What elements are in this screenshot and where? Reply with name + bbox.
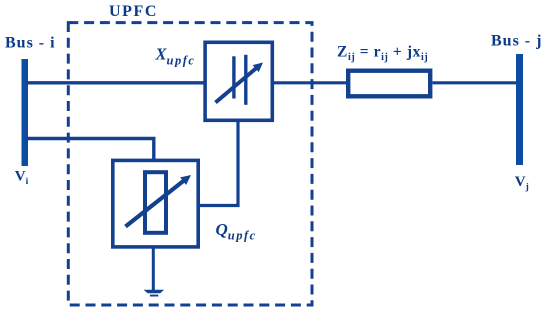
series converter box U1 (variable reactance Xupfc) bbox=[205, 42, 272, 120]
wire bus-i to Q box (shunt branch) bbox=[26, 139, 154, 161]
UPFC dashed boundary box bbox=[68, 23, 312, 305]
wire X box bottom to Q box right bbox=[199, 121, 238, 206]
capacitor plate left inside U1 bbox=[232, 56, 235, 98]
ground stem wire bbox=[152, 247, 155, 291]
reactor rectangle inside U2 bbox=[145, 172, 166, 233]
variable arrow through capacitor U1 bbox=[216, 67, 258, 103]
svg-text:UPFC: UPFC bbox=[109, 3, 158, 20]
wire resistor to bus-j bbox=[433, 81, 518, 84]
wire X box to resistor bbox=[272, 81, 348, 84]
impedance Zij rectangle bbox=[348, 71, 430, 97]
bus bar Bus-i bbox=[22, 59, 29, 166]
variable arrow through reactor U2 bbox=[126, 180, 186, 227]
svg-text:Bus - i: Bus - i bbox=[5, 35, 56, 52]
shunt converter box U2 (variable susceptance Qupfc) bbox=[113, 160, 198, 247]
ground symbol bbox=[144, 290, 164, 294]
capacitor plate right inside U1 bbox=[244, 55, 247, 105]
wire bus-i to X box (series branch) bbox=[26, 81, 205, 84]
bus bar Bus-j bbox=[516, 54, 523, 165]
svg-text:Bus - j: Bus - j bbox=[491, 33, 542, 50]
